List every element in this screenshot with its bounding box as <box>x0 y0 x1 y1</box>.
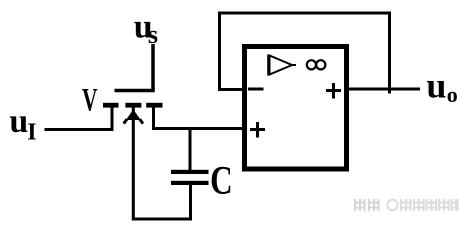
wire feedback right vertical <box>388 13 391 94</box>
op-amp U1 inverting input label <box>248 88 264 91</box>
watermark <box>355 200 458 210</box>
wire bottom return <box>132 218 192 221</box>
svg-text:I: I <box>27 120 36 146</box>
wire feedback top <box>218 12 391 15</box>
op-amp U1 infinity gain symbol <box>307 60 326 69</box>
wire feedback into inverting input <box>220 88 244 91</box>
wire source stem <box>111 105 114 131</box>
node uo label <box>426 66 457 108</box>
svg-text:C: C <box>210 158 233 203</box>
wire substrate stem <box>132 118 135 219</box>
wire us stem <box>151 44 155 91</box>
wire uI input <box>45 128 113 131</box>
transistor V channel bar right <box>146 103 162 108</box>
capacitor C top plate <box>171 170 209 174</box>
svg-text:o: o <box>447 82 458 107</box>
svg-text:u: u <box>426 66 446 106</box>
capacitor C bottom plate <box>171 181 209 185</box>
svg-text:u: u <box>9 103 28 140</box>
transistor V channel bar middle <box>125 103 141 108</box>
op-amp U1 triangle symbol <box>270 56 297 75</box>
op-amp U1 body <box>245 47 347 170</box>
wire capacitor bottom stem <box>189 185 192 221</box>
wire feedback left vertical <box>218 13 221 91</box>
node uI label <box>9 103 36 146</box>
svg-text:V: V <box>82 82 97 119</box>
op-amp U1 non-inverting input label <box>250 122 265 138</box>
wire capacitor top stem <box>189 129 192 171</box>
op-amp U1 output plus label <box>326 83 341 99</box>
wire output <box>348 88 420 91</box>
transistor V channel bar left <box>103 103 119 108</box>
wire drain stem <box>152 105 155 129</box>
wire gate <box>115 89 155 93</box>
transistor V substrate arrow <box>124 106 143 124</box>
node us label <box>134 9 158 49</box>
wire drain to op-amp <box>152 127 244 130</box>
